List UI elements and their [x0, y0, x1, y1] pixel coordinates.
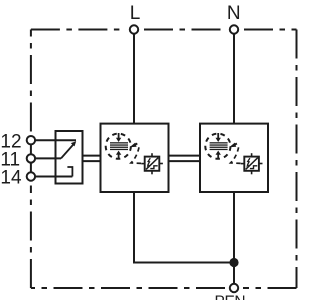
wire N to right module	[233, 34, 235, 124]
contact 14 fixed terminal	[67, 167, 72, 177]
changeover contact blade with arrowhead	[61, 145, 73, 159]
wire terminal 14 to contact	[35, 176, 72, 178]
mechanical link contact to left module (double line)	[83, 155, 101, 157]
enclosure boundary right edge	[296, 30, 298, 289]
svg-text:N: N	[227, 3, 241, 24]
surge arrester module N internals	[205, 133, 262, 174]
wire terminal 12 to contact	[35, 139, 76, 141]
enclosure boundary bottom edge with gap at PE terminal	[243, 287, 297, 289]
terminal N	[230, 25, 238, 33]
svg-text:14: 14	[0, 168, 22, 189]
surge arrester module N (box)	[200, 124, 268, 192]
wire left module down	[133, 192, 135, 264]
wire L to left module	[133, 34, 135, 124]
node link between terminals 12-11-14 on left edge	[30, 140, 32, 177]
terminal PE	[230, 284, 238, 292]
surge arrester module L (box)	[101, 124, 169, 192]
remote signalling changeover contact box	[56, 131, 83, 184]
enclosure boundary (dash-dot), top edge with gaps at L and N terminals	[31, 30, 297, 289]
terminal 11	[27, 154, 35, 162]
terminal 12	[27, 136, 35, 144]
wire right module down to node	[233, 192, 235, 263]
wire terminal 11 to contact	[35, 157, 61, 159]
surge arrester module L internals	[106, 133, 163, 174]
terminal L	[130, 25, 138, 33]
mechanical link between modules (double line)	[169, 155, 201, 157]
wire bottom horizontal to node	[133, 262, 234, 264]
junction node	[229, 258, 238, 267]
svg-text:PEN: PEN	[215, 293, 246, 300]
wire node to PE terminal	[233, 263, 235, 284]
enclosure boundary left edge with gaps at contacts 12 11 14	[30, 186, 32, 289]
svg-text:L: L	[130, 3, 141, 24]
terminal 14	[27, 172, 35, 180]
